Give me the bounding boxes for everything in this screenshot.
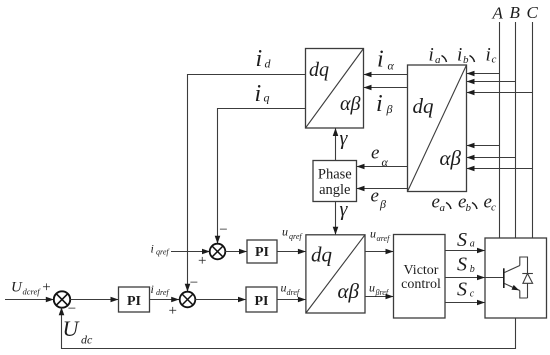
svg-text:B: B <box>510 3 521 22</box>
svg-text:β: β <box>386 102 393 116</box>
svg-text:c: c <box>470 288 475 299</box>
label e_alpha <box>371 143 389 170</box>
svg-text:a: a <box>440 202 446 214</box>
svg-text:γ: γ <box>340 128 349 150</box>
label u_betaref <box>369 281 390 298</box>
svg-text:i: i <box>429 45 434 66</box>
wire input U_dcref to J1 <box>5 297 54 303</box>
svg-text:PI: PI <box>255 294 269 309</box>
svg-text:b: b <box>470 264 475 275</box>
wire i_d from U1 down to summing junction J2 <box>185 75 306 292</box>
svg-text:−: − <box>219 222 227 238</box>
label u_qref <box>282 225 303 242</box>
summing junction J3 <box>210 244 226 260</box>
label i_a i_b i_c <box>429 45 497 67</box>
label U_dc <box>63 316 94 347</box>
svg-text:u: u <box>370 227 376 241</box>
svg-text:U: U <box>63 316 81 341</box>
wire PI2 to U3 <box>277 297 306 303</box>
svg-text:a: a <box>470 238 475 249</box>
svg-text:S: S <box>457 279 467 301</box>
svg-text:b: b <box>463 54 469 66</box>
svg-text:βref: βref <box>375 288 390 297</box>
svg-text:c: c <box>492 54 497 66</box>
wire gamma from phase angle down to U3 <box>333 202 339 235</box>
block converter bridge <box>485 238 547 318</box>
svg-text:control: control <box>401 277 441 292</box>
block victor control <box>394 235 446 319</box>
svg-text:dc: dc <box>81 333 93 347</box>
svg-text:C: C <box>527 3 539 22</box>
svg-text:αref: αref <box>377 234 392 243</box>
svg-text:c: c <box>491 202 496 214</box>
svg-text:A: A <box>492 4 504 23</box>
svg-text:dq: dq <box>309 59 329 81</box>
label i_q <box>255 81 270 107</box>
block dq to alphabeta transform U3 <box>306 235 365 313</box>
svg-text:dref: dref <box>156 288 170 297</box>
svg-text:u: u <box>282 225 288 239</box>
label S_a <box>457 229 475 251</box>
wire u_alpharef U3 to victor control <box>365 249 394 255</box>
svg-text:a: a <box>435 54 441 66</box>
label i_alpha <box>377 47 395 73</box>
block PI controller PI3 <box>247 240 277 263</box>
svg-text:dref: dref <box>287 288 301 297</box>
wire S_a victor control to converter <box>445 248 485 254</box>
wire voltage tap e_b from phase B <box>467 155 516 161</box>
svg-text:angle: angle <box>319 182 350 198</box>
svg-text:u: u <box>369 281 375 295</box>
block alphabeta to dq current transform U1 <box>306 49 364 129</box>
wire PI3 to U3 with label u_qref <box>277 249 306 255</box>
svg-text:i: i <box>256 46 263 72</box>
svg-text:γ: γ <box>340 199 349 221</box>
svg-text:b: b <box>466 202 472 214</box>
svg-text:dq: dq <box>311 243 333 267</box>
label e_a e_b e_c <box>432 192 497 215</box>
svg-text:−: − <box>190 275 198 291</box>
svg-text:PI: PI <box>255 245 269 260</box>
label i_dref <box>151 282 171 297</box>
transistor IGBT with freewheel diode <box>485 257 533 298</box>
svg-text:d: d <box>265 57 272 71</box>
wire S_b victor control to converter <box>445 275 485 281</box>
wire e_alpha from U2 to phase angle <box>357 164 408 170</box>
wire current tap i_b from phase B <box>467 79 516 85</box>
label i_d <box>256 46 272 72</box>
wire voltage tap e_a from phase A <box>467 143 500 149</box>
svg-text:+: + <box>42 280 50 296</box>
block PI controller PI1 <box>119 287 150 312</box>
svg-text:PI: PI <box>127 294 141 309</box>
block phase angle detector <box>313 161 357 202</box>
svg-text:i: i <box>486 45 491 66</box>
wire J1 to PI1 <box>70 297 118 303</box>
svg-text:i: i <box>151 242 154 256</box>
svg-text:αβ: αβ <box>340 93 360 115</box>
label u_dref <box>281 281 301 298</box>
wire current tap i_a from phase A <box>467 71 500 77</box>
svg-text:q: q <box>264 91 270 105</box>
summing junction J1 <box>54 291 70 307</box>
svg-text:αβ: αβ <box>440 146 462 170</box>
svg-text:e: e <box>371 186 379 207</box>
wire phase A vertical <box>499 22 501 238</box>
svg-text:+: + <box>198 253 206 269</box>
svg-text:S: S <box>457 254 467 276</box>
wire e_beta from U2 to phase angle <box>357 186 408 192</box>
svg-text:S: S <box>457 229 467 251</box>
wire u_betaref U3 to victor control <box>365 294 394 300</box>
svg-text:e: e <box>371 143 379 164</box>
label S_c <box>457 279 475 301</box>
svg-text:dcref: dcref <box>23 287 42 297</box>
svg-text:qref: qref <box>289 232 303 241</box>
wire phase B vertical <box>515 22 517 238</box>
wire i_alpha from U2 to U1 <box>364 72 408 78</box>
svg-text:i: i <box>255 81 262 107</box>
block abc to dq-alphabeta transform U2 <box>408 65 467 192</box>
block PI controller PI2 <box>246 287 277 312</box>
svg-text:i: i <box>151 282 154 296</box>
svg-text:αβ: αβ <box>338 279 360 303</box>
svg-text:U: U <box>11 280 23 296</box>
svg-text:+: + <box>169 303 177 319</box>
wire PI1 to J2 <box>150 297 180 303</box>
svg-text:β: β <box>379 197 386 211</box>
wire i_q from U1 down to summing junction J3 <box>215 109 306 244</box>
label u_alpharef <box>370 227 391 244</box>
label U_dcref <box>11 280 41 297</box>
wire U_dc feedback from converter to J1 <box>59 307 516 348</box>
svg-text:−: − <box>68 301 76 317</box>
wire phase C vertical <box>532 22 534 238</box>
label e_beta <box>371 186 387 212</box>
svg-text:i: i <box>376 91 383 117</box>
wire voltage tap e_c from phase C <box>467 166 533 172</box>
wire J3 to PI3 <box>225 249 247 255</box>
wire i_qref into J3 <box>171 249 210 255</box>
wire J2 to PI2 <box>195 297 246 303</box>
svg-text:α: α <box>382 155 389 169</box>
wire gamma from phase angle up to U1 <box>333 128 339 161</box>
svg-text:i: i <box>457 45 462 66</box>
svg-text:α: α <box>388 59 395 73</box>
svg-text:Phase: Phase <box>318 167 352 183</box>
svg-text:i: i <box>377 47 384 73</box>
label i_beta <box>376 91 393 117</box>
wire S_c victor control to converter <box>445 300 485 306</box>
svg-text:dq: dq <box>413 94 435 118</box>
svg-text:Victor: Victor <box>404 263 439 278</box>
wire current tap i_c from phase C <box>467 90 533 96</box>
label S_b <box>457 254 475 276</box>
svg-text:qref: qref <box>156 248 170 257</box>
summing junction J2 <box>180 292 196 308</box>
label i_qref <box>151 242 171 257</box>
wire i_beta from U2 to U1 <box>364 85 408 91</box>
